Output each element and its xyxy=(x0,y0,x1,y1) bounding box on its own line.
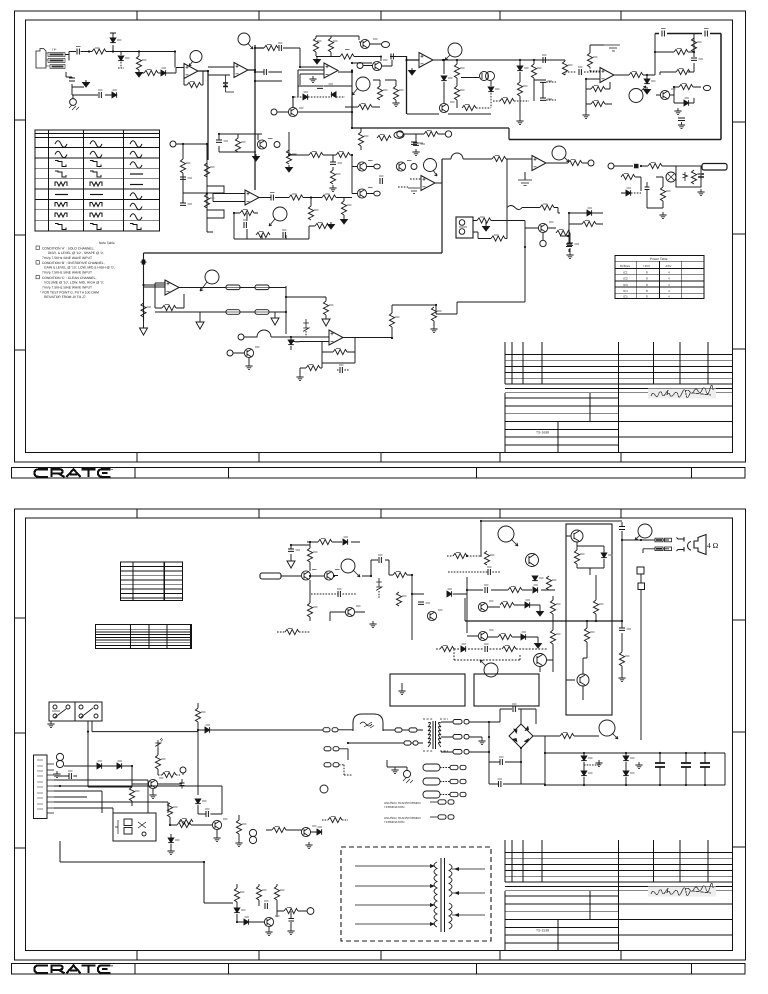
wire mod1 xyxy=(401,683,403,688)
capacitor C115 xyxy=(69,773,71,779)
svg-text:RefDes: RefDes xyxy=(620,264,631,268)
wire r130 xyxy=(277,911,307,928)
ground xyxy=(392,100,399,107)
capacitor C118 xyxy=(265,903,267,909)
wire gnd feed xyxy=(139,68,184,74)
termination lug trio xyxy=(423,764,466,771)
resistor R7 xyxy=(328,38,333,52)
pot P105 xyxy=(480,660,498,677)
ground xyxy=(582,112,589,119)
wire q3 xyxy=(277,97,352,112)
row6 waves xyxy=(55,194,68,196)
capacitor C7 xyxy=(540,80,546,82)
svg-text:IC3: IC3 xyxy=(623,283,628,287)
title block sheet 1 xyxy=(505,342,733,453)
wire c108 chain xyxy=(621,621,623,675)
opto box OC1 xyxy=(113,813,156,841)
resistor R47 xyxy=(660,187,665,201)
svg-text:4: 4 xyxy=(668,277,670,281)
relay K1 xyxy=(49,702,75,721)
sheet1 border zone ticks xyxy=(15,11,746,462)
wire q106 xyxy=(488,605,540,609)
wire q115 xyxy=(540,649,553,672)
terminal circle xyxy=(588,160,594,166)
wire c101 xyxy=(291,545,310,558)
wire r105 xyxy=(277,631,310,633)
resistor R105 dashed xyxy=(285,629,299,634)
primary lug pair xyxy=(383,728,423,732)
diode D8 xyxy=(488,87,494,92)
sheet2 border zone ticks xyxy=(15,509,746,960)
capacitor C105 xyxy=(488,569,490,575)
wire term xyxy=(182,773,184,775)
row5 waves xyxy=(55,182,67,186)
wire q9 xyxy=(352,177,374,194)
terminal circle xyxy=(320,785,328,793)
wire to opamp G xyxy=(144,286,166,288)
ground xyxy=(265,929,272,936)
resistor R124 xyxy=(272,827,286,832)
resistor R41 xyxy=(358,132,363,146)
strip frame xyxy=(12,964,746,975)
wire dash r15 xyxy=(493,100,529,102)
capacitor C4 xyxy=(279,45,281,51)
relay wires xyxy=(51,721,198,787)
secondary bus xyxy=(488,722,490,762)
wire mini cluster xyxy=(403,134,445,142)
resistor R10 xyxy=(393,86,398,100)
output stage box xyxy=(566,524,612,715)
resistor R6 xyxy=(313,38,318,52)
wire r126 xyxy=(238,815,240,840)
termination lug trio xyxy=(423,791,466,798)
wire rail feed xyxy=(464,598,466,621)
wire opamp F in xyxy=(213,194,245,202)
wire opamp B out, vertical bus xyxy=(248,45,264,190)
oval terminal xyxy=(703,85,710,90)
capacitor C22 xyxy=(698,174,704,177)
wire diode row xyxy=(64,766,132,787)
resistor R118 xyxy=(129,787,134,801)
wire gnd stub xyxy=(590,45,604,53)
polar cap C116 xyxy=(180,779,185,789)
ground xyxy=(341,217,348,224)
svg-text:8: 8 xyxy=(646,270,648,274)
bottom dashed row xyxy=(436,649,553,660)
connector lug xyxy=(655,547,672,551)
transformer T1 xyxy=(423,719,448,751)
terminal circle xyxy=(271,109,277,115)
return vertical xyxy=(640,574,642,740)
capacitor C13 xyxy=(180,177,186,179)
capacitor C108 xyxy=(619,628,625,630)
resistor R116 xyxy=(560,733,574,738)
ground xyxy=(537,609,544,616)
op-amp U4B xyxy=(329,330,343,345)
diode D111 xyxy=(97,763,102,769)
wire c105 xyxy=(448,571,500,573)
resistor R59 xyxy=(491,236,505,241)
resistor R35 xyxy=(322,195,336,200)
zener D15 xyxy=(303,319,309,337)
psu rail + xyxy=(545,752,725,754)
title block sheet 2 xyxy=(505,840,733,951)
secondary lug pair xyxy=(441,750,489,755)
wire H out xyxy=(343,327,392,338)
wire row join xyxy=(286,286,326,334)
svg-text:4: 4 xyxy=(668,283,670,287)
svg-text:+15V: +15V xyxy=(643,264,650,268)
breaker hump xyxy=(353,714,383,731)
top mid cluster wires xyxy=(219,134,262,152)
svg-text:TERMINATION: TERMINATION xyxy=(384,820,404,824)
resistor R117 xyxy=(195,708,200,722)
wire to opamp H xyxy=(291,337,329,342)
wire dash down xyxy=(490,93,492,108)
diode D4 xyxy=(112,92,117,98)
wire r46 xyxy=(621,177,641,193)
wire stubs xyxy=(546,60,560,100)
primary lug pair xyxy=(348,741,423,745)
input terminal block xyxy=(260,573,281,579)
svg-text:8: 8 xyxy=(646,277,648,281)
resistor R2 xyxy=(136,56,141,70)
terminal circle xyxy=(249,829,256,836)
terminal circle xyxy=(180,767,186,773)
opto pair Q5 xyxy=(480,72,495,81)
terminal circle xyxy=(608,163,614,169)
resistor R128 xyxy=(256,886,261,900)
ground xyxy=(566,252,573,259)
ground xyxy=(245,363,252,370)
diode D1 xyxy=(110,33,116,43)
transistor Q101 xyxy=(301,571,310,580)
flat ground xyxy=(518,172,532,186)
resistor R30 xyxy=(286,150,291,164)
diode D107b xyxy=(461,646,466,652)
diode D6 xyxy=(331,92,336,98)
wire d9 chain xyxy=(519,60,521,118)
sheet2 outer border xyxy=(15,509,746,960)
resistor R49 xyxy=(141,303,146,317)
diode D11 xyxy=(684,100,689,106)
sheet2 bottom strip xyxy=(12,964,746,975)
wire input mid xyxy=(176,144,207,203)
resistor R102 xyxy=(307,548,312,562)
resistor R112b xyxy=(550,630,555,644)
wire cluster xyxy=(237,884,277,922)
wire r53 xyxy=(300,363,322,374)
wire Q1 xyxy=(359,42,381,44)
transformer T2 core xyxy=(441,858,445,932)
CRATE logo sheet1 xyxy=(35,469,111,477)
svg-text:4 Ω: 4 Ω xyxy=(707,541,719,550)
transistor Q9 xyxy=(357,189,366,198)
output rail xyxy=(465,620,622,622)
terminal circle xyxy=(411,164,417,170)
wire r17 xyxy=(534,60,543,101)
resistor R4 xyxy=(187,82,201,87)
vertical bus mid xyxy=(207,144,213,232)
wire F out xyxy=(259,198,352,207)
svg-text:7mVp 7.5KHz SINE WAVE INPUT: 7mVp 7.5KHz SINE WAVE INPUT xyxy=(42,285,92,289)
resistor R108 xyxy=(484,551,489,565)
revision grid xyxy=(505,840,708,882)
wire hop row xyxy=(435,153,532,221)
resistor R9 xyxy=(377,86,382,100)
wire q108 net xyxy=(566,536,604,575)
svg-text:TS-1698: TS-1698 xyxy=(536,431,549,435)
resistor R1 xyxy=(92,49,106,54)
ground xyxy=(253,154,260,161)
wire q2 xyxy=(363,60,392,66)
ground open arrow xyxy=(271,312,279,325)
svg-text:CONDITION 'B' : OVERDRIVE CHAN: CONDITION 'B' : OVERDRIVE CHANNEL, xyxy=(42,261,105,265)
power transistor Q108 xyxy=(571,530,583,542)
resistor R33 xyxy=(330,170,335,184)
resistor R114 xyxy=(584,628,589,642)
resistor R111b xyxy=(498,634,512,639)
wire gnd stub xyxy=(480,737,482,738)
resistor R14 xyxy=(462,105,476,110)
junction dots sheet1 xyxy=(88,47,695,339)
top wire y542 xyxy=(307,541,360,543)
ground xyxy=(369,621,376,628)
resistor R25 xyxy=(679,84,693,89)
resistor R120 xyxy=(162,772,176,777)
sheet2 inner border xyxy=(26,518,733,951)
capacitor C101 xyxy=(288,549,294,551)
diode D117 xyxy=(234,908,240,913)
slider S3 xyxy=(226,310,240,315)
relay K2 xyxy=(75,702,102,721)
svg-text:4: 4 xyxy=(668,270,670,274)
diode D108 xyxy=(581,753,587,785)
resistor R46 xyxy=(621,174,635,179)
transistor Q113 xyxy=(264,917,273,926)
terminal circle xyxy=(382,42,390,48)
wire r118 xyxy=(131,801,133,806)
capacitor C2 xyxy=(69,78,75,81)
designator circle xyxy=(238,33,253,49)
resistor R21 xyxy=(587,53,592,67)
resistor R3 xyxy=(144,70,158,75)
resistor R119 xyxy=(155,755,160,769)
terminal circle xyxy=(249,836,256,843)
row4 waves xyxy=(55,171,66,177)
resistor R11 xyxy=(358,104,372,109)
resistor R101 xyxy=(318,539,332,544)
terminal square xyxy=(638,583,645,590)
wire r112a xyxy=(552,596,554,621)
jack label box xyxy=(702,164,727,171)
vertical buses xyxy=(412,575,467,640)
svg-text:-15V: -15V xyxy=(665,264,671,268)
strip dividers xyxy=(135,964,692,975)
diode D12 xyxy=(626,190,631,196)
ground xyxy=(47,721,54,728)
resistor R60 xyxy=(540,205,554,210)
svg-text:7mVp 7.5KHz SINE WAVE INPUT: 7mVp 7.5KHz SINE WAVE INPUT xyxy=(42,256,92,260)
wire bottom left cluster xyxy=(560,213,603,252)
row2 waves xyxy=(55,151,67,158)
zener D113 xyxy=(155,738,163,748)
mains lug pair xyxy=(324,763,352,775)
row7 waves xyxy=(55,203,67,207)
resistor R36 xyxy=(240,210,254,215)
svg-text:8: 8 xyxy=(646,289,648,293)
resistor R31 xyxy=(309,152,323,157)
wire to cluster xyxy=(283,48,324,85)
sheet2 table A xyxy=(121,562,183,601)
resistor R103 xyxy=(393,572,407,577)
resistor R37 xyxy=(256,232,270,237)
diode D106b xyxy=(521,634,526,640)
oval terminal xyxy=(394,132,404,139)
speaker icon xyxy=(677,535,707,555)
resistor R104 xyxy=(307,603,312,617)
power transistor Q109 xyxy=(577,674,589,686)
wire q11 xyxy=(233,353,249,363)
capacitor C3 xyxy=(99,92,101,98)
transistor Q1 xyxy=(360,39,369,48)
op-amp U2B xyxy=(600,68,614,83)
pot P5 xyxy=(552,146,569,162)
waveform glyphs xyxy=(55,141,143,230)
secondary lug pair xyxy=(441,720,489,725)
diode D114 xyxy=(195,799,201,804)
notes text block sheet1 xyxy=(36,241,115,299)
transistor Q6 xyxy=(660,90,669,99)
capacitor C117 xyxy=(206,811,208,817)
diode D104 xyxy=(532,576,538,581)
ground open arrow xyxy=(322,315,330,326)
mid rail v xyxy=(289,132,352,177)
diode D106 xyxy=(525,602,530,608)
filter cap C114 xyxy=(700,753,710,785)
top rail xyxy=(481,521,622,557)
termination lug trio xyxy=(423,778,466,785)
transistor Q102 xyxy=(324,571,333,580)
diode D116 xyxy=(317,829,322,835)
capacitor C103 xyxy=(338,591,340,597)
op-amp U4A xyxy=(165,280,179,295)
ground xyxy=(329,185,336,192)
resistor R23 xyxy=(591,101,605,106)
capacitor C26 xyxy=(413,143,419,145)
wire input xyxy=(281,575,324,577)
wire dashed diode row xyxy=(294,96,345,98)
ground xyxy=(635,762,642,769)
resistor R56 xyxy=(424,131,438,136)
wire c115 xyxy=(54,775,77,777)
component value labels (tiny text) xyxy=(68,29,709,918)
wire r36 xyxy=(234,213,258,239)
wire r104 xyxy=(309,580,311,621)
wire bridge right xyxy=(533,736,545,753)
wire opamp A out xyxy=(198,71,208,160)
revision grid xyxy=(505,342,708,384)
transistor Q111 xyxy=(212,820,221,829)
svg-text:IC2: IC2 xyxy=(623,277,628,281)
wire rail drop xyxy=(565,60,576,75)
wire opto xyxy=(461,78,491,87)
wire d110 xyxy=(198,729,323,731)
pot P3 xyxy=(629,86,646,103)
step stub 2 xyxy=(207,210,224,218)
wire q6 xyxy=(656,87,701,103)
wire mid rail xyxy=(467,589,555,591)
svg-text:VOLUME @ '10', LOW, MID, HIGH: VOLUME @ '10', LOW, MID, HIGH @ '0', xyxy=(44,280,104,284)
diode D118 xyxy=(244,919,249,925)
ground xyxy=(213,835,220,842)
terminal circle xyxy=(307,908,314,915)
resistor R130 xyxy=(284,908,298,913)
junction dots extra xyxy=(225,56,383,114)
bottom rail xyxy=(407,113,491,115)
resistor R15 xyxy=(500,98,514,103)
capacitor C4c xyxy=(223,75,234,92)
ground xyxy=(412,149,419,156)
resistor R112a xyxy=(550,600,555,614)
resistor R52 xyxy=(333,349,347,354)
ground open arrow xyxy=(196,318,204,329)
op-amp U3A xyxy=(245,190,259,205)
wire r40 xyxy=(343,198,345,218)
zener D102 xyxy=(376,578,382,598)
ground xyxy=(430,326,437,333)
wire u5 out xyxy=(546,162,566,164)
capacitor C11 xyxy=(691,58,697,60)
signature xyxy=(648,389,716,399)
title box xyxy=(505,393,733,453)
wire hop xyxy=(244,330,291,337)
CRATE logo sheet2 xyxy=(35,965,111,973)
title box xyxy=(505,891,733,951)
resistor R61 xyxy=(556,230,570,235)
resistor R54 xyxy=(389,313,394,327)
resistor R45 xyxy=(691,170,696,184)
slider S2 xyxy=(255,285,269,290)
wire cluster right xyxy=(647,177,663,208)
ground xyxy=(296,374,303,381)
diode D109 xyxy=(623,753,629,785)
ground xyxy=(305,842,312,849)
wire opamp D out rail xyxy=(433,60,565,74)
capacitor C4b xyxy=(264,69,266,75)
capacitor C15 xyxy=(216,140,222,142)
capacitor C107 xyxy=(619,527,625,530)
capacitor C1 xyxy=(77,49,79,55)
terminal circle xyxy=(274,142,280,148)
sheet1 inner border xyxy=(26,20,733,453)
T2 secondary leads xyxy=(452,867,485,917)
connector lug xyxy=(655,538,672,542)
svg-text:IC1: IC1 xyxy=(623,270,628,274)
resistor R38 xyxy=(308,206,313,220)
transistor Q7 xyxy=(257,140,266,149)
polar cap xyxy=(645,182,650,190)
dashed transformer box xyxy=(341,847,491,941)
ground xyxy=(659,212,666,219)
resistor R57 xyxy=(492,156,506,161)
resistor R28 xyxy=(204,194,209,208)
wire q12 xyxy=(525,228,556,240)
diode D13 xyxy=(587,210,592,216)
resistor R53 xyxy=(306,365,320,370)
capacitor C102 xyxy=(379,557,381,563)
capacitor + ground xyxy=(678,118,685,129)
